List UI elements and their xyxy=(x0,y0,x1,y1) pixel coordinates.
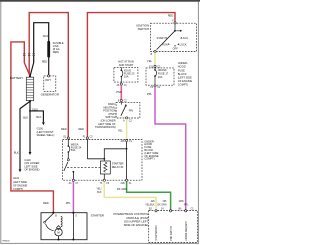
svg-text:LOCK: LOCK xyxy=(180,43,187,47)
svg-text:10A: 10A xyxy=(158,75,163,79)
svg-text:COMPT): COMPT) xyxy=(144,157,154,161)
starter relay coil xyxy=(87,139,127,179)
svg-text:DK GRN: DK GRN xyxy=(117,187,127,191)
fuse F23 xyxy=(120,67,122,70)
svg-text:COMPT): COMPT) xyxy=(13,187,23,191)
svg-text:G101: G101 xyxy=(13,176,20,180)
svg-text:YEL: YEL xyxy=(147,59,152,63)
svg-text:DK GRN: DK GRN xyxy=(157,205,166,207)
solenoid coil xyxy=(61,216,62,226)
svg-text:STARTER RLY: STARTER RLY xyxy=(155,225,158,241)
svg-text:NCA: NCA xyxy=(43,34,49,38)
svg-text:OF ENGINE: OF ENGINE xyxy=(178,79,193,83)
svg-text:H96I02: H96I02 xyxy=(3,241,11,243)
battery B1 xyxy=(10,75,34,102)
svg-text:PNP SWITCH: PNP SWITCH xyxy=(171,226,173,241)
svg-text:BATTERY: BATTERY xyxy=(10,76,23,80)
wire inside fuse block to DK GRN terminal xyxy=(126,149,128,179)
solenoid contact arm xyxy=(45,213,54,221)
svg-text:YEL/BLK: YEL/BLK xyxy=(145,205,155,207)
svg-text:50A: 50A xyxy=(71,148,76,152)
svg-text:A35: A35 xyxy=(121,140,126,143)
wire RED battery positive up to mega fuse (top run left) xyxy=(29,13,68,138)
fuse block bottom terminals xyxy=(72,179,74,181)
starter motor xyxy=(41,212,104,241)
svg-text:RELAY #1: RELAY #1 xyxy=(112,165,124,169)
svg-text:SWITCH: SWITCH xyxy=(138,27,150,31)
svg-text:OF ENGINE): OF ENGINE) xyxy=(24,168,39,172)
svg-text:RED): RED) xyxy=(53,50,59,54)
node S110 xyxy=(29,110,31,112)
svg-text:OF ENGINE: OF ENGINE xyxy=(13,183,28,187)
wire BLK S110 to G100 xyxy=(30,111,43,122)
svg-text:CRANK REQUEST: CRANK REQUEST xyxy=(185,220,188,240)
wire BLK battery negative to G101 xyxy=(20,102,30,170)
svg-text:BLK: BLK xyxy=(14,150,19,154)
PNP switch xyxy=(95,99,140,129)
svg-text:STARTER: STARTER xyxy=(112,161,124,165)
svg-text:BLK: BLK xyxy=(97,192,102,194)
svg-text:START: START xyxy=(157,36,166,40)
crank fuse box (under-hood fuse block) xyxy=(146,65,174,89)
starter relay switch xyxy=(64,152,101,179)
wire BLK battery negative to S110 and G110 xyxy=(29,102,31,152)
svg-text:YEL/: YEL/ xyxy=(97,189,102,191)
svg-text:BATT: BATT xyxy=(45,79,51,82)
svg-text:PPL: PPL xyxy=(66,201,71,205)
ground G110 xyxy=(29,152,32,155)
wire fusible link to generator xyxy=(48,56,50,75)
svg-text:TRANSMISSION): TRANSMISSION) xyxy=(95,125,116,129)
svg-text:RED: RED xyxy=(168,13,174,17)
mega fuse 34 xyxy=(68,139,82,153)
ground G100 xyxy=(42,122,45,125)
svg-text:(LEFT SIDE: (LEFT SIDE xyxy=(178,76,192,80)
wire YEL ignition B to crank fuse xyxy=(154,53,156,66)
svg-text:RED: RED xyxy=(79,127,85,131)
terminal B xyxy=(154,50,156,52)
wire BLK battery positive loop to fusible link xyxy=(30,23,49,76)
svg-text:RED: RED xyxy=(42,60,48,64)
svg-text:21B: 21B xyxy=(121,183,126,185)
svg-text:1035: 1035 xyxy=(178,201,184,203)
wire PPL crank fuse to PCM xyxy=(155,87,186,210)
svg-text:BLK: BLK xyxy=(36,115,41,119)
wire size tags on battery wires xyxy=(23,54,35,56)
wire YEL/BLK relay coil to PCM xyxy=(104,181,156,209)
svg-text:UNDER-: UNDER- xyxy=(178,61,188,65)
under-hood fuse block (lower) xyxy=(63,136,143,180)
svg-text:COMPT): COMPT) xyxy=(178,83,188,87)
svg-text:BLK: BLK xyxy=(23,116,28,120)
svg-text:STARTER: STARTER xyxy=(91,213,104,217)
motor M xyxy=(57,226,61,230)
ignition switch S1 xyxy=(136,21,196,56)
svg-text:RUN: RUN xyxy=(162,42,168,46)
generator G1 xyxy=(41,75,59,97)
svg-text:WHEEL WELL): WHEEL WELL) xyxy=(37,133,55,137)
fusible link xyxy=(47,42,50,56)
svg-text:FUSE: FUSE xyxy=(178,68,185,72)
wire RED mega fuse output to ignition switch F xyxy=(87,13,175,138)
wire PNK fuse 23 to PNP switch xyxy=(120,85,122,99)
svg-text:SIDE OF ENGINE): SIDE OF ENGINE) xyxy=(124,223,149,227)
svg-text:AND START: AND START xyxy=(119,63,134,67)
svg-text:P/N: P/N xyxy=(129,108,133,112)
svg-text:ACC: ACC xyxy=(183,36,189,40)
svg-text:(LEFT SIDE: (LEFT SIDE xyxy=(13,180,27,184)
svg-text:PNK: PNK xyxy=(116,90,122,94)
wire DK GRN fuse block to PCM xyxy=(127,181,171,209)
wire YEL PNP to fuse block xyxy=(126,119,128,139)
svg-text:YEL: YEL xyxy=(118,128,123,132)
wire RED battery positive to starter B (left loop) xyxy=(11,42,54,212)
svg-text:RED: RED xyxy=(43,201,49,205)
svg-text:OFF: OFF xyxy=(173,46,179,50)
svg-text:BLOCK: BLOCK xyxy=(178,72,187,76)
svg-text:10A: 10A xyxy=(124,75,129,79)
ground G101 xyxy=(19,169,22,172)
svg-text:PPL: PPL xyxy=(184,205,189,207)
fuse F17 xyxy=(154,67,156,70)
svg-text:HOOD: HOOD xyxy=(178,65,186,69)
svg-text:RED: RED xyxy=(61,127,67,131)
svg-text:GENERATOR: GENERATOR xyxy=(41,93,59,97)
svg-text:PPL: PPL xyxy=(147,92,152,96)
wire PPL fuse block to starter S xyxy=(72,181,74,212)
